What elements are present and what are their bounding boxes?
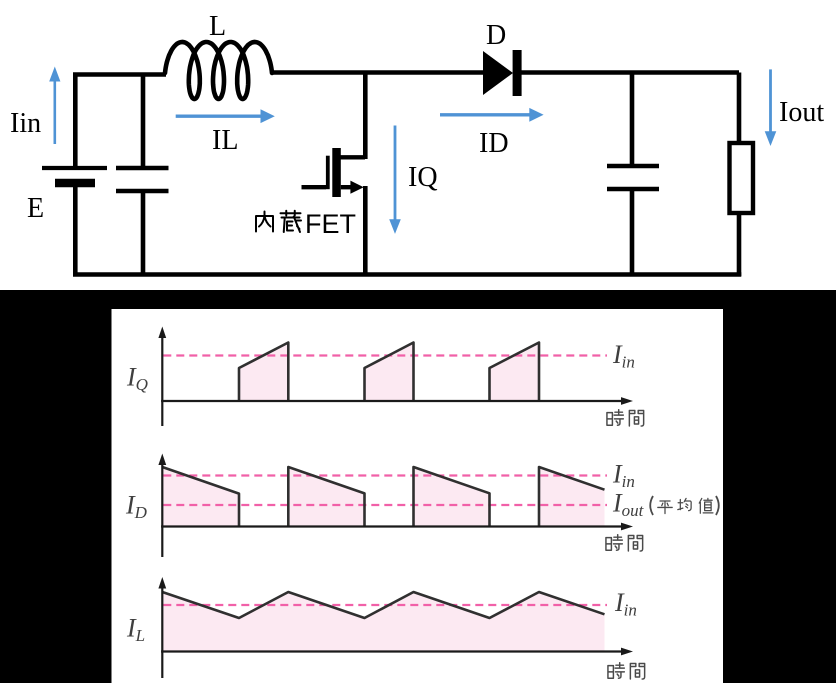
- dashed Iin level line (IQ plot): [163, 354, 607, 356]
- wire left branch upper (E positive lead): [73, 73, 78, 168]
- ID waveform filled pulses: [162, 467, 604, 527]
- wire load branch lower lead: [737, 213, 742, 276]
- dashed Iout average level line (ID plot): [163, 504, 607, 506]
- svg-text:IQ: IQ: [408, 162, 438, 193]
- capacitor C2 (output): [607, 166, 659, 189]
- IL plot y-axis: [161, 587, 163, 678]
- svg-text:L: L: [209, 11, 226, 42]
- inductor L: [165, 42, 272, 99]
- battery E: [42, 168, 107, 183]
- capacitor C1 (input): [116, 168, 169, 191]
- IL waveform filled area: [162, 592, 604, 652]
- svg-text:D: D: [486, 20, 506, 51]
- wire top rail left (E to inductor): [73, 72, 166, 77]
- wire load branch upper lead: [737, 73, 742, 144]
- wire input capacitor upper lead: [141, 73, 146, 168]
- wire output capacitor lower lead: [630, 188, 635, 276]
- current arrow Iout: [765, 69, 777, 146]
- IQ waveform trace: [239, 343, 539, 402]
- current arrow IQ: [389, 126, 401, 234]
- wire top rail middle (inductor to diode and FET drain node): [271, 70, 487, 75]
- label 時間 (IL plot): [608, 663, 645, 679]
- wire output capacitor upper lead: [630, 73, 635, 166]
- IQ plot x-axis (time): [161, 400, 621, 402]
- svg-text:Iin: Iin: [10, 108, 41, 139]
- ID plot y-axis: [161, 464, 163, 558]
- wire top rail right (diode cathode to output corner): [517, 70, 739, 75]
- current arrow IL: [176, 109, 275, 123]
- wire input capacitor lower lead: [141, 191, 146, 276]
- IQ plot y-axis: [161, 337, 163, 427]
- label 時間 (ID plot): [606, 535, 643, 551]
- label 時間 (IQ plot): [607, 410, 644, 426]
- IQ waveform filled pulses: [239, 343, 539, 402]
- wire bottom rail: [73, 272, 741, 277]
- waveform panel background: [0, 290, 836, 683]
- IL plot x-axis (time): [161, 650, 621, 652]
- diode D: [483, 50, 522, 96]
- wire left branch lower (E negative lead): [73, 184, 78, 276]
- dashed Iin level line (IL plot): [163, 604, 607, 606]
- svg-text:ID: ID: [479, 128, 509, 159]
- resistor R (load): [730, 143, 754, 213]
- svg-text:E: E: [27, 193, 44, 224]
- svg-text:FET: FET: [305, 209, 356, 239]
- svg-text:Iout: Iout: [779, 97, 824, 128]
- current arrow Iin: [49, 67, 60, 145]
- current arrow ID: [440, 108, 544, 122]
- IL waveform trace: [162, 592, 604, 618]
- wire FET source lead to bottom rail: [363, 186, 368, 276]
- ID plot x-axis (time): [161, 525, 621, 527]
- dashed Iin level line (ID plot): [163, 474, 607, 476]
- label 内蔵FET: [256, 211, 301, 232]
- ID waveform trace: [162, 467, 604, 527]
- wire FET drain lead from top rail: [363, 73, 368, 160]
- svg-text:IL: IL: [212, 125, 238, 156]
- transistor Q1 (built-in FET): [302, 148, 366, 197]
